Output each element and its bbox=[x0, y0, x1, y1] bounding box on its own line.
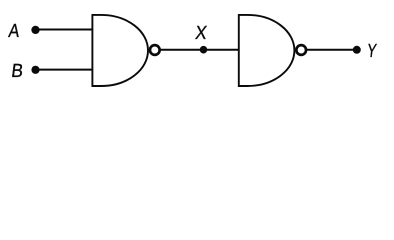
wire A (node A to gate 1 input) bbox=[36, 29, 94, 31]
svg-text:Y: Y bbox=[366, 40, 378, 62]
NAND gate 2 body bbox=[239, 15, 295, 86]
svg-text:X: X bbox=[194, 22, 208, 43]
svg-text:B: B bbox=[10, 60, 24, 82]
NAND gate 2 inversion bubble bbox=[296, 45, 306, 55]
node Y terminal dot bbox=[353, 46, 361, 54]
NAND gate 1 body bbox=[92, 15, 148, 86]
wire gate 2 output to node Y bbox=[307, 49, 357, 51]
wire B (node B to gate 1 input) bbox=[36, 69, 94, 71]
wire net X (gate 1 output to gate 2 input) bbox=[160, 49, 239, 51]
NAND gate 1 inversion bubble bbox=[150, 45, 160, 55]
svg-text:A: A bbox=[7, 20, 21, 42]
node B terminal dot bbox=[31, 66, 39, 74]
node X junction dot bbox=[200, 46, 208, 54]
node A terminal dot bbox=[31, 26, 39, 34]
